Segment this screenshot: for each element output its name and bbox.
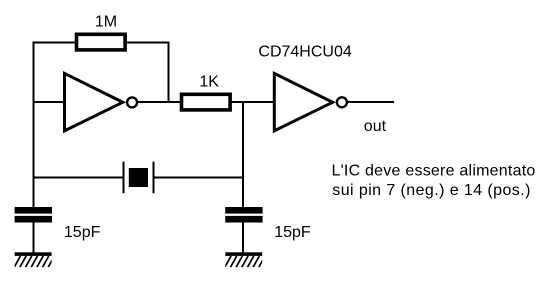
- svg-text:15pF: 15pF: [274, 224, 311, 241]
- svg-text:out: out: [364, 118, 387, 135]
- svg-text:sui pin 7 (neg.) e 14 (pos.): sui pin 7 (neg.) e 14 (pos.): [332, 182, 531, 199]
- svg-text:CD74HCU04: CD74HCU04: [258, 44, 351, 61]
- svg-text:15pF: 15pF: [64, 224, 101, 241]
- svg-text:1M: 1M: [95, 14, 117, 31]
- svg-text:L'IC deve essere alimentato: L'IC deve essere alimentato: [332, 163, 536, 180]
- svg-text:1K: 1K: [199, 73, 219, 90]
